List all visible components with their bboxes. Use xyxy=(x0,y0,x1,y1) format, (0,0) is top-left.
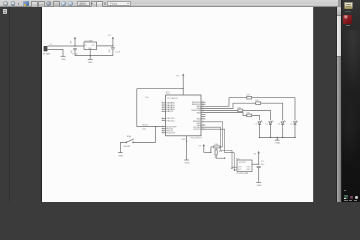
battery connector X1 xyxy=(43,44,52,55)
LED4 xyxy=(290,120,298,137)
wire RB4 to LED ladder rail 2 xyxy=(201,103,256,108)
svg-text:GND: GND xyxy=(257,185,262,187)
IC2 left pin stubs xyxy=(162,103,166,133)
LED2 xyxy=(266,120,274,137)
node junction input rail xyxy=(74,45,75,46)
node junction on gnd rail xyxy=(90,55,91,56)
svg-text:GND: GND xyxy=(181,139,186,141)
node junction cap node xyxy=(258,164,259,165)
svg-text:10u: 10u xyxy=(261,164,264,166)
svg-text:OSC2/CL: OSC2/CL xyxy=(166,120,175,122)
desktop adobe reader icon xyxy=(343,15,352,25)
IC2 pin numbers xyxy=(162,101,204,134)
wire VDD rail xyxy=(137,88,183,90)
node junctions at serial IC inputs xyxy=(224,158,235,171)
ground GND3 (reset switch) xyxy=(118,153,124,158)
svg-text:9V BAT: 9V BAT xyxy=(43,53,51,56)
wire battery to regulator input xyxy=(47,45,84,47)
wire rail 3 to LED2 column xyxy=(243,110,271,120)
ground GND2 (regulator) xyxy=(88,59,93,63)
wire rail 4 to LED1 column xyxy=(252,115,260,120)
svg-text:GP1: GP1 xyxy=(238,169,241,171)
svg-text:IN: IN xyxy=(85,45,87,47)
IC2 right pin stubs xyxy=(201,102,205,129)
wire switch to ground xyxy=(120,142,125,152)
desktop folder icon xyxy=(344,2,353,9)
svg-text:PIC16F876: PIC16F876 xyxy=(191,137,203,139)
wire rail gnd tap xyxy=(276,137,278,140)
ground GND5 (LED rail) xyxy=(275,140,281,145)
microcontroller IC2 PIC16F876 xyxy=(166,92,203,140)
wire VDD into IC2 top xyxy=(182,89,184,95)
svg-text:GND: GND xyxy=(275,143,280,145)
wire node up to R6 xyxy=(210,147,212,153)
svg-text:11: 11 xyxy=(162,127,164,129)
ground GND6 (serial) xyxy=(256,182,262,187)
serial IC3 xyxy=(236,158,252,175)
IC2 right pin labels xyxy=(192,102,202,131)
resistor R5 xyxy=(246,112,251,116)
wire RC7 to serial IC pin 1 xyxy=(201,127,237,167)
node junctions on LED rail xyxy=(259,137,296,138)
svg-text:RC2/CCP: RC2/CCP xyxy=(166,133,175,135)
wire battery negative lead xyxy=(47,49,63,56)
wire RB5 to LED ladder rail 1 xyxy=(201,98,247,107)
sidebar pages-tab icon xyxy=(3,9,7,14)
node junction on VSS wire xyxy=(186,141,187,142)
resistor R4 xyxy=(238,107,243,111)
IC2 left pin labels xyxy=(166,102,177,135)
ground GND4 (IC2) xyxy=(184,160,190,165)
wire RB3 to LED ladder rail 3 xyxy=(201,109,238,111)
desktop strip on far right xyxy=(342,0,360,202)
wire regulator output xyxy=(97,45,113,47)
svg-text:RESET: RESET xyxy=(124,146,132,148)
svg-text:RA4/T0: RA4/T0 xyxy=(166,110,174,113)
supply +5V arrow for IC2 VDD xyxy=(176,73,184,88)
wire switch right lead xyxy=(134,141,156,143)
wire down to reset switch xyxy=(155,127,157,143)
wire RC6 to serial IC pin 2 xyxy=(201,129,237,170)
svg-text:10: 10 xyxy=(162,119,164,121)
svg-text:19: 19 xyxy=(202,125,204,127)
svg-text:9V: 9V xyxy=(70,40,72,43)
capacitor C1 (input) xyxy=(71,49,79,56)
svg-text:R7: R7 xyxy=(215,157,217,159)
voltage regulator IC1 78L05 xyxy=(84,40,97,50)
toolbar icons (approx, tiny) xyxy=(3,1,8,6)
svg-text:21: 21 xyxy=(202,120,204,122)
svg-text:28: 28 xyxy=(202,101,204,103)
node junction VDD drop xyxy=(183,88,184,89)
resistor R6 3.3k xyxy=(211,144,223,148)
toolbar xyxy=(0,0,338,7)
wire pullup vertical xyxy=(136,89,138,127)
wire RB2 to LED ladder rail 4 xyxy=(201,113,247,116)
svg-text:22: 22 xyxy=(202,118,204,120)
svg-text:13: 13 xyxy=(162,131,164,133)
wire IC2 VSS to ground xyxy=(186,136,188,160)
node junction MCLR/switch xyxy=(155,126,156,127)
right gray margin of viewer xyxy=(313,7,336,202)
svg-text:GND: GND xyxy=(61,59,66,61)
wire regulator gnd pin xyxy=(89,50,91,60)
wire LED ground rail xyxy=(260,136,296,138)
svg-text:PIC16F876: PIC16F876 xyxy=(167,98,178,100)
svg-text:5V: 5V xyxy=(254,153,257,155)
svg-text:GND: GND xyxy=(246,169,251,171)
supply +5V arrow (pullup) xyxy=(199,144,205,153)
svg-text:GND: GND xyxy=(118,155,123,157)
wire RB0 down to MCLR resistor node xyxy=(201,122,223,147)
supply +9V arrow P1 xyxy=(70,37,76,46)
wire serial IC vdd pin xyxy=(252,163,259,165)
wire MCLR net into IC2 xyxy=(137,126,166,128)
svg-text:5V: 5V xyxy=(108,35,111,37)
svg-text:OUT: OUT xyxy=(91,45,95,47)
svg-text:EXPWR: EXPWR xyxy=(239,162,246,164)
svg-text:L3: L3 xyxy=(278,124,281,126)
bottom-right bright specks xyxy=(344,190,346,191)
sidebar (navigation pane, dark) xyxy=(0,7,42,202)
svg-text:10k: 10k xyxy=(145,97,148,99)
capacitor C2 (output) xyxy=(109,48,121,56)
white PDF page xyxy=(42,7,314,202)
ground GND1 (battery) xyxy=(61,56,67,61)
svg-text:3.3k: 3.3k xyxy=(214,144,218,146)
wire rail 1 to LED4 column xyxy=(252,98,295,121)
resistor R2 xyxy=(246,95,251,99)
wire rail 2 to LED3 column xyxy=(261,103,283,120)
node junction pullup xyxy=(210,152,211,153)
LED3 xyxy=(278,120,286,137)
svg-text:18: 18 xyxy=(202,127,204,129)
svg-text:GND: GND xyxy=(88,62,93,64)
svg-text:IC1 7805: IC1 7805 xyxy=(84,40,93,42)
svg-text:L2: L2 xyxy=(266,124,269,126)
svg-text:GND: GND xyxy=(185,163,190,165)
switch S1 (reset) xyxy=(124,136,134,148)
svg-text:5V: 5V xyxy=(176,75,179,77)
svg-text:104: 104 xyxy=(142,129,146,131)
resistor R3 xyxy=(255,100,260,104)
supply +5V arrow P2 xyxy=(108,35,114,46)
svg-text:L1: L1 xyxy=(255,124,258,126)
vertical scrollbar xyxy=(336,7,337,202)
svg-text:L4: L4 xyxy=(290,124,293,126)
svg-text:PIC12F-I/SN: PIC12F-I/SN xyxy=(236,173,248,175)
node MCLR label xyxy=(142,125,148,131)
svg-text:MCLR: MCLR xyxy=(142,125,148,127)
svg-text:27: 27 xyxy=(202,103,204,105)
svg-text:12: 12 xyxy=(162,129,164,131)
svg-text:10k: 10k xyxy=(219,151,222,153)
svg-text:5V: 5V xyxy=(199,146,202,148)
svg-text:20: 20 xyxy=(202,123,204,125)
svg-text:IC2: IC2 xyxy=(166,92,170,95)
node junction output rail xyxy=(112,45,113,46)
resistor R7 10k (vertical) xyxy=(215,148,225,159)
icon label noise xyxy=(346,25,350,26)
LED1 xyxy=(255,120,263,137)
supply +5V arrow (serial) xyxy=(254,151,260,164)
capacitor C3 xyxy=(257,161,265,182)
wire ground rail under regulator xyxy=(75,55,113,57)
svg-text:17: 17 xyxy=(202,129,204,131)
svg-text:RC6/TX: RC6/TX xyxy=(193,129,201,131)
wire +5V to resistor node xyxy=(204,151,211,153)
svg-text:0.1uF: 0.1uF xyxy=(115,51,121,53)
